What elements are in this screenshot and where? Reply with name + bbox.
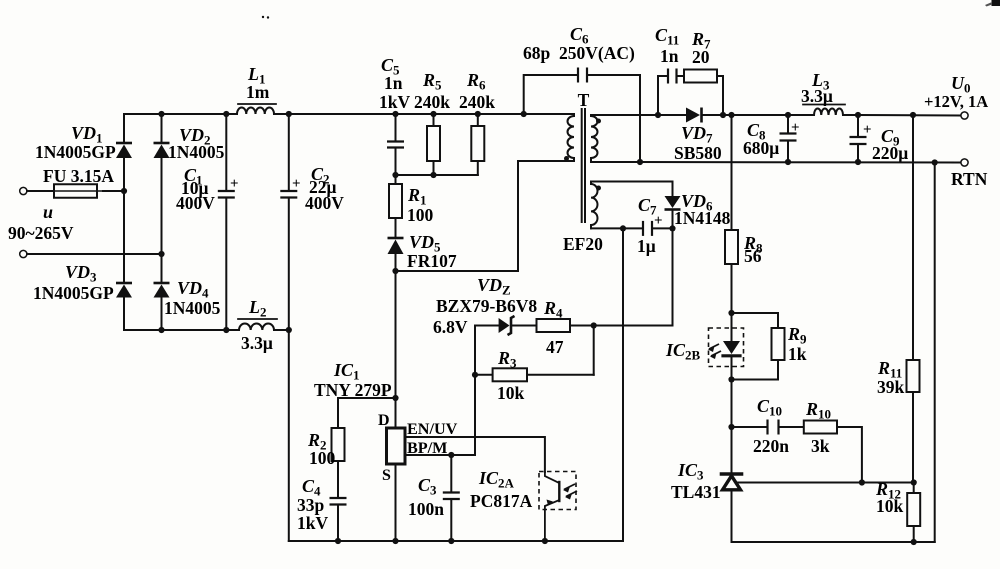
node C5 top <box>392 111 398 117</box>
node R5 top <box>430 111 436 117</box>
svg-text:1μ: 1μ <box>637 236 656 256</box>
svg-text:BZX79-B6V8: BZX79-B6V8 <box>436 296 537 316</box>
resistor R10 <box>804 421 837 434</box>
svg-text:3.3μ: 3.3μ <box>801 86 833 106</box>
opto IC2B dashed box <box>709 328 744 367</box>
svg-text:+: + <box>863 122 872 138</box>
node bias plus <box>669 225 675 231</box>
svg-text:10k: 10k <box>497 383 525 403</box>
node LED top <box>728 310 734 316</box>
node R12 gnd <box>911 539 917 545</box>
capacitor C6 <box>524 75 578 114</box>
svg-text:33p: 33p <box>297 495 325 515</box>
node C6 right <box>637 159 643 165</box>
svg-text:1N4005: 1N4005 <box>164 298 221 318</box>
wire VD4 to bottom rail <box>161 298 163 331</box>
node C7 left <box>620 225 626 231</box>
wire VD2 column top <box>161 114 163 143</box>
wire primary bottom lead <box>573 158 575 161</box>
svg-text:680μ: 680μ <box>743 138 779 158</box>
svg-text:100n: 100n <box>408 499 444 519</box>
node LED bottom <box>728 376 734 382</box>
svg-text:1n: 1n <box>660 46 679 66</box>
output terminal U0 <box>961 112 968 119</box>
svg-text:FR107: FR107 <box>407 251 457 271</box>
wire secondary bottom lead <box>590 158 592 162</box>
wire secondary top lead <box>590 115 592 116</box>
wire drain node <box>396 270 519 272</box>
resistor R7 <box>677 75 685 77</box>
led IC2B <box>731 313 733 341</box>
svg-text:68p: 68p <box>523 43 551 63</box>
wire R8 column <box>731 115 733 230</box>
phase dot primary <box>564 156 569 161</box>
output terminal RTN <box>961 159 968 166</box>
node C9 top <box>855 112 861 118</box>
wire secondary rail to VD7 <box>658 114 686 116</box>
svg-text:240k: 240k <box>459 92 495 112</box>
phase dot secondary <box>596 119 601 124</box>
svg-text:3k: 3k <box>811 436 830 456</box>
wire TL431 anode <box>731 490 733 543</box>
node R6 top <box>475 111 481 117</box>
svg-text:39k: 39k <box>877 377 905 397</box>
wire R2 branch <box>338 398 396 428</box>
wire L3 to C9 <box>843 114 858 116</box>
wire bottom bridge rail <box>124 329 239 331</box>
artifact dots <box>262 16 264 18</box>
capacitor C3 <box>450 455 452 493</box>
diode VD3 <box>116 282 132 285</box>
wire L2 to C2 bottom <box>274 329 289 331</box>
resistor R12 <box>913 483 915 494</box>
diode VD6 <box>665 208 681 211</box>
svg-text:100: 100 <box>407 205 434 225</box>
svg-text:EN/UV: EN/UV <box>407 420 458 438</box>
svg-text:100: 100 <box>309 448 336 468</box>
wire drain column <box>395 271 397 428</box>
svg-text:EF20: EF20 <box>563 234 603 254</box>
svg-text:PC817A: PC817A <box>470 491 533 511</box>
svg-text:1N4005GP: 1N4005GP <box>33 283 114 303</box>
wire primary bottom <box>518 160 574 162</box>
svg-text:u: u <box>43 202 53 222</box>
svg-text:56: 56 <box>744 246 762 266</box>
opto IC2A transistor <box>545 472 559 483</box>
svg-text:400V: 400V <box>176 193 215 213</box>
wire AC2 <box>27 253 162 255</box>
core T <box>581 109 583 222</box>
node C8 top <box>785 112 791 118</box>
wire VD1 column top <box>123 114 125 143</box>
wire VD6 to node <box>672 210 674 229</box>
phase dot bias <box>596 186 601 191</box>
wire secondary gnd rail <box>732 541 935 543</box>
wire gnd riser to bias <box>622 228 624 541</box>
svg-text:20: 20 <box>692 47 710 67</box>
diode VD1 <box>116 142 132 145</box>
wire fuse node to VD3 <box>123 191 125 283</box>
wire VDZ branch <box>474 326 476 375</box>
resistor R5 <box>433 114 435 126</box>
wire VD1 to fuse node <box>123 158 125 191</box>
node R2 branch <box>392 395 398 401</box>
node snubber left <box>655 112 661 118</box>
svg-text:+: + <box>230 176 239 192</box>
diode VD4 <box>154 282 170 285</box>
diode VD5 <box>388 237 404 240</box>
wire R3 line <box>475 374 493 376</box>
wire RTN riser <box>934 163 936 543</box>
wire LED to TL431 <box>731 380 733 475</box>
wire bias top lead <box>590 182 592 185</box>
resistor R6 <box>477 114 479 126</box>
opto IC2A dashed box <box>539 472 576 510</box>
node C1 bottom <box>223 327 229 333</box>
capacitor C5 <box>395 114 397 142</box>
winding primary <box>568 116 575 158</box>
node L2 right <box>286 327 292 333</box>
node R3 left <box>472 372 478 378</box>
node C6 branch <box>521 111 527 117</box>
wire R3 to R4 node <box>527 374 594 376</box>
inductor L3 <box>814 109 843 115</box>
wire RTN rail <box>591 161 961 164</box>
svg-text:RTN: RTN <box>951 169 988 189</box>
winding bias <box>591 184 598 225</box>
svg-text:3.3μ: 3.3μ <box>241 333 273 353</box>
node RTN branch <box>932 159 938 165</box>
capacitor C4 <box>330 497 347 499</box>
wire fuse input <box>27 190 54 192</box>
wire clamp node <box>396 174 478 176</box>
svg-text:BP/M: BP/M <box>407 439 447 457</box>
opto IC2A light arrows <box>564 484 575 490</box>
capacitor C7 <box>642 221 644 236</box>
wire EN/UV <box>405 437 545 472</box>
node C10 branch <box>728 424 734 430</box>
wire C2 bottom to gnd rail <box>288 330 290 541</box>
wire feedback to bias <box>594 325 673 327</box>
wire +12 rail mid <box>788 114 814 116</box>
node drain left <box>392 268 398 274</box>
wire bias top to VD6 <box>672 182 674 197</box>
node divider <box>911 479 917 485</box>
node opto emitter gnd <box>542 538 548 544</box>
wire R4 out <box>570 325 594 327</box>
wire R9 bottom <box>732 379 779 381</box>
wire R10 out <box>837 427 862 483</box>
node C4 gnd <box>335 538 341 544</box>
fuse FU 3.15A <box>54 184 97 198</box>
svg-text:1N4005GP: 1N4005GP <box>35 142 116 162</box>
svg-text:FU 3.15A: FU 3.15A <box>43 166 114 186</box>
node C9 bottom <box>855 159 861 165</box>
wire +12 to terminal <box>858 114 961 117</box>
resistor R2 <box>332 428 345 461</box>
node VD4 bottom <box>158 327 164 333</box>
svg-text:1N4148: 1N4148 <box>674 208 731 228</box>
input terminal upper <box>20 187 27 194</box>
svg-text:400V: 400V <box>305 193 344 213</box>
node snubber right <box>720 112 726 118</box>
artifact top right <box>992 0 1000 6</box>
wire top rail left <box>124 113 237 115</box>
resistor R11 <box>907 360 920 392</box>
ic U1 TNY279P body <box>387 428 406 464</box>
svg-text:TL431: TL431 <box>671 482 721 502</box>
resistor R9 <box>772 328 785 360</box>
svg-text:T: T <box>578 90 590 110</box>
node BP branch <box>448 452 454 458</box>
svg-text:1kV: 1kV <box>297 513 328 533</box>
svg-text:1kV: 1kV <box>379 92 410 112</box>
inductor L2 <box>239 324 274 331</box>
svg-text:1N4005: 1N4005 <box>168 142 225 162</box>
svg-text:220μ: 220μ <box>872 143 908 163</box>
svg-text:D: D <box>378 412 390 429</box>
capacitor C2 <box>288 114 290 191</box>
svg-text:220n: 220n <box>753 436 789 456</box>
ic IC3 TL431 <box>722 472 742 476</box>
wire drain riser <box>517 161 519 271</box>
node C1 top <box>223 111 229 117</box>
diode VD7 <box>700 108 703 123</box>
wire zener to R4 <box>511 325 537 327</box>
node clamp left <box>392 172 398 178</box>
wire primary gnd rail <box>289 540 623 542</box>
svg-text:+: + <box>791 120 800 136</box>
svg-text:250V(AC): 250V(AC) <box>559 43 635 63</box>
winding secondary <box>591 116 598 158</box>
diode VD2 <box>154 142 170 145</box>
wire VD2 to AC2 <box>161 158 163 254</box>
capacitor C8 <box>787 115 789 134</box>
wire top rail mid <box>274 113 396 115</box>
svg-text:S: S <box>382 467 391 484</box>
zener VDZ <box>508 316 515 335</box>
svg-text:90~265V: 90~265V <box>8 223 74 243</box>
wire TL431 ref <box>737 482 914 484</box>
wire VD5 to drain node <box>395 254 397 271</box>
node C8 bottom <box>785 159 791 165</box>
node R5 bottom <box>430 172 436 178</box>
node R8 top <box>728 112 734 118</box>
node source gnd <box>392 538 398 544</box>
svg-text:1m: 1m <box>246 82 270 102</box>
svg-text:10k: 10k <box>876 496 904 516</box>
wire fuse to bridge <box>103 190 124 192</box>
resistor R1 <box>395 175 397 184</box>
node VD2 top <box>158 111 164 117</box>
opto IC2B light arrows <box>709 344 719 349</box>
svg-text:6.8V: 6.8V <box>433 317 468 337</box>
capacitor C11 <box>658 76 668 115</box>
wire VD3 to bottom rail <box>123 298 125 331</box>
svg-text:240k: 240k <box>414 92 450 112</box>
input terminal lower <box>20 250 27 257</box>
wire VD7 out <box>702 114 789 116</box>
wire R9 top <box>732 312 779 314</box>
wire AC2 to VD4 <box>161 254 163 283</box>
svg-text:+12V, 1A: +12V, 1A <box>924 92 988 111</box>
node AC2 <box>158 251 164 257</box>
resistor R8 <box>725 230 738 264</box>
wire R11 column <box>912 115 914 360</box>
capacitor C9 <box>857 115 859 137</box>
wire BP/M <box>405 375 475 455</box>
capacitor C1 <box>225 114 227 191</box>
resistor R3 <box>493 368 527 381</box>
node C2 top <box>286 111 292 117</box>
node R10 down <box>859 479 865 485</box>
svg-text:47: 47 <box>546 337 564 357</box>
wire bias bottom lead <box>590 225 592 228</box>
node R4 out <box>591 322 597 328</box>
svg-text:+: + <box>292 176 301 192</box>
resistor R4 <box>537 319 571 332</box>
inductor L1 <box>237 108 274 115</box>
svg-text:1k: 1k <box>788 344 807 364</box>
wire top rail right <box>396 113 575 115</box>
wire primary top lead <box>573 114 575 116</box>
svg-text:SB580: SB580 <box>674 143 722 163</box>
node R11 top <box>910 112 916 118</box>
svg-text:1n: 1n <box>384 73 403 93</box>
capacitor C10 <box>732 426 768 428</box>
node AC1 <box>121 188 127 194</box>
node C3 gnd <box>448 538 454 544</box>
wire source pin <box>395 464 397 541</box>
